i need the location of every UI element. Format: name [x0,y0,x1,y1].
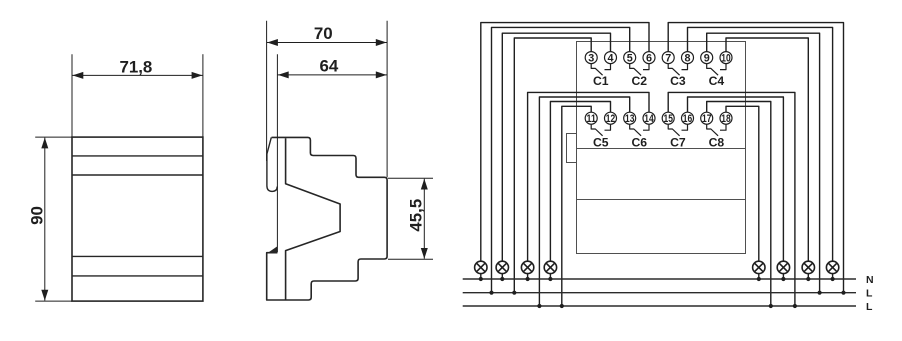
switch contact C2 [630,64,649,76]
wire terminal 14 to lamp E3 [528,92,649,279]
lamp lamp E6 [777,261,789,273]
wire terminal 13 to L [539,97,629,306]
junction dot at x=514.3 [512,291,516,295]
lamp lamp E8 [826,261,838,273]
junction dot at x=561.8 [560,304,564,308]
side view: top DIN clip strip with hook [267,137,277,191]
bus line L (lower) [463,305,856,307]
wire terminal 6 to lamp E1 [481,23,649,279]
front view horizontal panel lines [72,156,203,276]
svg-text:C2: C2 [632,74,648,88]
side view: rear wall and DIN-rail wedge recess [286,138,341,300]
terminal 16 [682,112,694,125]
svg-text:C6: C6 [632,136,648,150]
bus label L (upper) [866,288,873,300]
terminal 17 [701,112,713,125]
junction dot at x=783.4 [781,277,785,281]
lamp lamp E1 [475,261,487,273]
wire terminal 11 to L [562,106,591,306]
svg-text:C1: C1 [593,74,609,88]
channel label C2 [632,74,648,88]
junction dot at x=480.8 [479,277,483,281]
switch contact C1 [591,64,610,76]
terminal 11 [585,112,597,125]
svg-text:45,5: 45,5 [406,199,425,232]
lamp lamp E4 [544,261,556,273]
dimension 64 extension line [276,54,278,252]
wire terminal 3 to L [514,38,591,293]
wire terminal 7 to L [668,23,843,293]
lamp lamp E3 [521,261,533,273]
terminal 9 [701,52,713,65]
junction dot at x=539.4 [537,304,541,308]
junction dot at x=843.5 [841,291,845,295]
dimension 45,5 extension lines [388,178,433,259]
dimension label 90 (rotated) [27,206,46,225]
side view: lower clip tip (filled) [269,246,277,252]
junction dot at x=758.8 [757,277,761,281]
junction dot at x=808.3 [806,277,810,281]
dimension 70 extension lines [267,21,388,178]
junction dot at x=491.5 [489,291,493,295]
svg-text:90: 90 [27,206,46,225]
switch contact C3 [668,64,687,76]
svg-text:17: 17 [702,113,711,125]
junction dot at x=550.4 [548,277,552,281]
switch contact C8 [707,124,726,136]
switch contact C4 [707,64,726,76]
svg-text:70: 70 [314,24,333,43]
channel label C8 [709,136,725,150]
dimension label 64 [320,56,339,75]
svg-text:13: 13 [625,113,634,125]
svg-text:L: L [866,288,873,300]
svg-text:6: 6 [646,53,652,65]
svg-text:10: 10 [721,53,730,65]
svg-text:7: 7 [665,53,671,65]
switch contact C6 [630,124,649,136]
junction dot at x=770.8 [769,304,773,308]
dimension 90 extension lines [35,137,72,301]
svg-text:14: 14 [644,113,653,125]
wire terminal 10 to lamp E7 [726,38,808,279]
switch contact C7 [668,124,687,136]
junction dot at x=794.9 [793,304,797,308]
wire terminal 4 to lamp E2 [502,33,610,279]
channel label C5 [593,136,609,150]
dimension 64 dimension line with arrows [277,71,387,78]
svg-text:C3: C3 [670,74,686,88]
device box outline [577,42,746,254]
dimension 71,8 extension lines [72,54,203,137]
svg-text:N: N [866,274,874,286]
junction dot at x=832.6 [831,277,835,281]
device box side tab [567,134,577,163]
svg-text:L: L [866,301,873,313]
svg-text:C4: C4 [709,74,725,88]
channel label C6 [632,136,648,150]
channel label C3 [670,74,686,88]
svg-text:18: 18 [721,113,730,125]
svg-text:16: 16 [683,113,692,125]
terminal 13 [624,112,636,125]
svg-text:15: 15 [664,113,673,125]
channel label C4 [709,74,725,88]
svg-text:C5: C5 [593,136,609,150]
svg-text:5: 5 [627,53,633,65]
svg-text:64: 64 [320,56,339,75]
terminal 8 [682,52,694,65]
svg-text:12: 12 [606,113,615,125]
dimension label 71,8 [119,57,152,76]
dimension 90 dimension line with arrows [41,138,48,301]
svg-text:C7: C7 [670,136,686,150]
wire terminal 17 to L [707,102,771,307]
wire terminal 12 to lamp E4 [550,102,610,280]
junction dot at x=527.6 [526,277,530,281]
junction dot at x=819.6 [818,291,822,295]
terminal 12 [605,112,617,125]
svg-text:8: 8 [684,53,690,65]
bus line N [463,278,856,280]
lamp lamp E7 [802,261,814,273]
lamp lamp E2 [496,261,508,273]
terminal 5 [624,52,636,65]
front view: device outline rectangle [72,137,203,301]
terminal 7 [662,52,674,65]
terminal 15 [662,112,674,125]
bus line L (upper) [463,292,856,294]
dimension 70 dimension line with arrows [267,39,388,46]
wire terminal 18 to lamp E5 [726,106,759,279]
bus label L (lower) [866,301,873,313]
switch contact C5 [591,124,610,136]
dimension 45,5 dimension line with arrows [421,179,428,259]
dimension 71,8 dimension line with arrows [72,72,203,79]
wire terminal 5 to L [492,27,630,292]
dimension label 70 [314,24,333,43]
dimension label 45,5 (rotated) [406,199,425,232]
terminal 10 [720,52,732,65]
terminal 18 [720,112,732,125]
svg-text:11: 11 [587,113,596,125]
svg-text:3: 3 [588,53,594,65]
device box divider line lower [577,199,746,201]
wire terminal 9 to L [707,33,820,293]
channel label C1 [593,74,609,88]
terminal 3 [585,52,597,65]
lamp lamp E5 [753,261,765,273]
terminal 14 [643,112,655,125]
wire terminal 8 to lamp E8 [688,27,833,279]
terminal 6 [643,52,655,65]
side view: main body outline [267,137,387,300]
svg-text:4: 4 [607,53,613,65]
svg-text:C8: C8 [709,136,725,150]
junction dot at x=502.3 [500,277,504,281]
device box divider line upper [577,148,746,150]
svg-text:71,8: 71,8 [119,57,152,76]
bus label N [866,274,874,286]
terminal 4 [605,52,617,65]
channel label C7 [670,136,686,150]
svg-text:9: 9 [704,53,710,65]
wire terminal 16 to lamp E6 [688,97,784,279]
wire terminal 15 to L [668,92,795,306]
